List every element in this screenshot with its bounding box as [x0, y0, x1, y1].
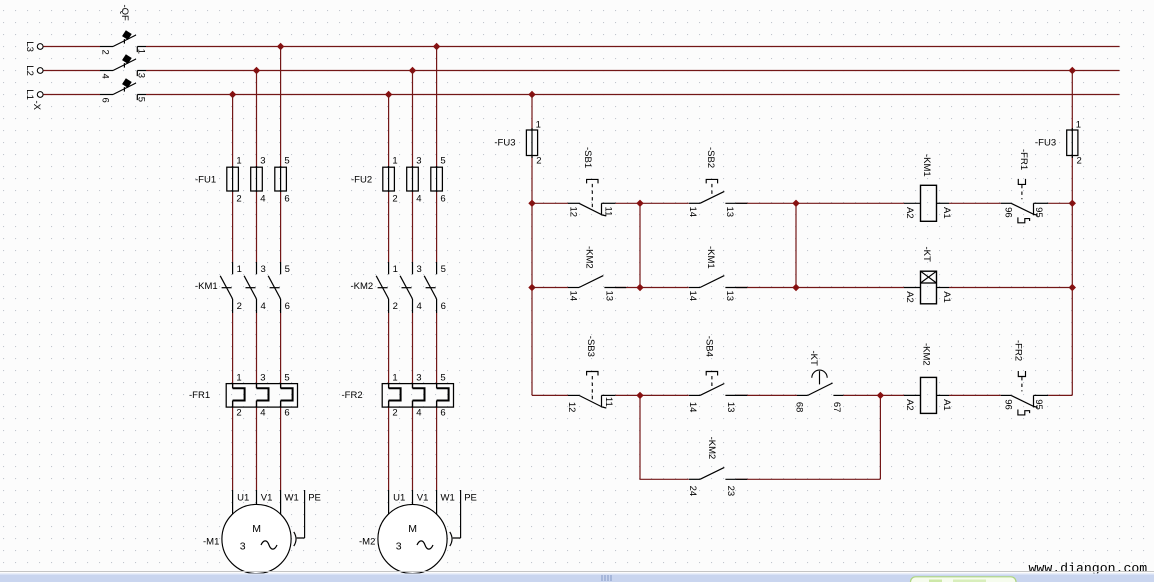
wire L2 bus [43, 70, 1119, 72]
node right-rail/row1 [1069, 200, 1076, 207]
node row3/880 [877, 392, 884, 399]
svg-text:L1: L1 [24, 89, 35, 100]
svg-text:5: 5 [284, 156, 289, 167]
svg-text:5: 5 [441, 264, 446, 275]
svg-text:14: 14 [687, 291, 698, 302]
pushbutton SB2 (NO start) [689, 202, 700, 204]
svg-text:2: 2 [392, 408, 397, 419]
svg-text:-SB3: -SB3 [585, 336, 596, 357]
svg-text:96: 96 [1003, 207, 1014, 218]
fuse FU3 (right, control) [1071, 128, 1073, 158]
svg-text:12: 12 [568, 207, 579, 218]
svg-text:3: 3 [261, 264, 266, 275]
separator line [0, 571, 1154, 573]
svg-text:13: 13 [724, 207, 735, 218]
svg-text:3: 3 [396, 540, 402, 552]
scrollbar track [0, 573, 1154, 582]
svg-text:W1: W1 [441, 492, 455, 503]
svg-text:14: 14 [687, 207, 698, 218]
svg-text:-KM2: -KM2 [706, 437, 717, 460]
svg-text:A1: A1 [941, 291, 952, 303]
svg-text:1: 1 [236, 372, 241, 383]
svg-text:2: 2 [99, 50, 110, 55]
motor M2 [388, 490, 390, 519]
svg-text:PE: PE [464, 492, 477, 503]
node row2/640 [636, 284, 643, 291]
fuse FU1 [232, 166, 234, 192]
timer contact KT (on-delay NO) [797, 394, 808, 396]
wire row2 segments [532, 287, 1072, 289]
svg-text:-FU2: -FU2 [351, 175, 372, 186]
svg-text:-FR1: -FR1 [189, 390, 210, 401]
svg-text:6: 6 [285, 301, 290, 312]
svg-text:4: 4 [416, 408, 421, 419]
svg-text:A1: A1 [941, 207, 952, 219]
wire motor branch 1 columns [233, 47, 281, 491]
svg-text:V1: V1 [261, 492, 273, 503]
svg-text:-M1: -M1 [203, 537, 219, 548]
pushbutton SB3 (NC) [568, 394, 579, 396]
svg-text:4: 4 [99, 74, 110, 79]
svg-text:-KM2: -KM2 [351, 281, 374, 292]
svg-text:67: 67 [831, 402, 842, 413]
svg-text:4: 4 [417, 301, 422, 312]
svg-text:3: 3 [136, 73, 147, 78]
tooltip balloon (clipped) [911, 577, 1017, 582]
svg-text:U1: U1 [237, 492, 249, 503]
svg-text:6: 6 [441, 301, 446, 312]
node row1/640 [636, 200, 643, 207]
svg-text:2: 2 [236, 194, 241, 205]
svg-text:5: 5 [285, 264, 290, 275]
svg-text:6: 6 [440, 408, 445, 419]
coil KM1 [904, 202, 921, 204]
svg-text:-FU3: -FU3 [1035, 137, 1056, 148]
svg-text:1: 1 [393, 264, 398, 275]
motor M1 [232, 490, 234, 519]
svg-text:-FR2: -FR2 [342, 390, 363, 401]
terminal L1 [37, 92, 43, 98]
svg-text:-KM1: -KM1 [195, 281, 218, 292]
svg-text:2: 2 [536, 156, 541, 167]
node L3/branch2 [433, 43, 440, 50]
coil KM2 [904, 394, 921, 396]
svg-text:1: 1 [392, 372, 397, 383]
node L1/left-rail [528, 91, 535, 98]
svg-text:-SB2: -SB2 [705, 147, 716, 168]
svg-text:6: 6 [284, 408, 289, 419]
svg-text:-KM2: -KM2 [584, 246, 595, 269]
wire motor branch 2 columns [389, 47, 437, 491]
node L2/branch2 [409, 67, 416, 74]
svg-text:A2: A2 [904, 291, 915, 303]
svg-text:95: 95 [1033, 207, 1044, 218]
node L1/branch1 [229, 91, 236, 98]
svg-text:2: 2 [237, 301, 242, 312]
node row3/640 [636, 392, 643, 399]
svg-text:-M2: -M2 [359, 537, 375, 548]
svg-text:-KT: -KT [921, 247, 932, 263]
svg-text:13: 13 [603, 291, 614, 302]
svg-text:-KM2: -KM2 [921, 343, 932, 366]
thermal NC contact FR2 [1001, 394, 1011, 396]
svg-text:6: 6 [440, 194, 445, 205]
svg-text:-FR2: -FR2 [1013, 340, 1024, 361]
wire right control rail [1071, 71, 1073, 396]
svg-text:-QF: -QF [119, 5, 130, 22]
svg-text:12: 12 [566, 402, 577, 413]
svg-text:96: 96 [1003, 399, 1014, 410]
svg-text:68: 68 [794, 402, 805, 413]
node L2/branch1 [253, 67, 260, 74]
svg-text:2: 2 [236, 408, 241, 419]
thermal NC contact FR1 [1001, 202, 1011, 204]
svg-text:23: 23 [725, 486, 736, 497]
wire L1 bus [43, 94, 1119, 96]
wire left control rail [531, 95, 533, 396]
svg-text:PE: PE [308, 492, 321, 503]
svg-text:1: 1 [536, 120, 541, 131]
svg-text:4: 4 [260, 194, 265, 205]
svg-text:5: 5 [440, 156, 445, 167]
svg-text:V1: V1 [417, 492, 429, 503]
svg-text:L2: L2 [24, 65, 35, 76]
svg-text:1: 1 [136, 49, 147, 54]
svg-text:M: M [408, 523, 417, 535]
pushbutton SB4 (NO) [689, 394, 700, 396]
wire L3 bus [43, 46, 1119, 48]
svg-text:95: 95 [1033, 399, 1044, 410]
svg-text:5: 5 [440, 372, 445, 383]
svg-text:3: 3 [260, 372, 265, 383]
node row1/796 [792, 200, 799, 207]
svg-text:M: M [252, 523, 261, 535]
svg-text:-FU1: -FU1 [195, 175, 216, 186]
svg-text:W1: W1 [285, 492, 299, 503]
svg-text:24: 24 [687, 486, 698, 497]
svg-text:3: 3 [417, 264, 422, 275]
contactor KM1 main contacts [232, 262, 234, 274]
thermal relay FR2 heaters [382, 384, 453, 408]
svg-text:14: 14 [568, 291, 579, 302]
svg-text:5: 5 [136, 97, 147, 102]
fuse FU2 [388, 166, 390, 192]
svg-text:U1: U1 [393, 492, 405, 503]
svg-text:4: 4 [260, 408, 265, 419]
node L1/branch2 [385, 91, 392, 98]
coil KT (time relay) [904, 287, 921, 289]
svg-text:1: 1 [236, 156, 241, 167]
svg-text:11: 11 [603, 397, 614, 407]
aux contact KM2 (row2 NO) [568, 287, 579, 289]
svg-text:6: 6 [99, 98, 110, 103]
scrollbar grip [602, 575, 611, 581]
svg-text:3: 3 [416, 156, 421, 167]
svg-text:2: 2 [392, 194, 397, 205]
aux contact KM2 (row4 NO) [689, 478, 700, 480]
svg-text:3: 3 [240, 540, 246, 552]
pushbutton SB1 (NC stop) [568, 202, 579, 204]
svg-text:11: 11 [603, 207, 614, 217]
svg-text:14: 14 [687, 402, 698, 413]
svg-text:A2: A2 [904, 207, 915, 219]
svg-text:4: 4 [261, 301, 266, 312]
wire row1 segments [532, 202, 1072, 204]
svg-text:-FU3: -FU3 [494, 137, 515, 148]
svg-text:L3: L3 [24, 41, 35, 52]
wire row3 segments [532, 394, 1072, 396]
wire link row1-row2 at 640 [639, 203, 641, 287]
svg-text:2: 2 [393, 301, 398, 312]
thermal relay FR1 heaters [226, 384, 297, 408]
svg-text:-KM1: -KM1 [921, 154, 932, 177]
node left-rail/row2 [528, 284, 535, 291]
svg-text:6: 6 [284, 194, 289, 205]
svg-text:-SB1: -SB1 [582, 147, 593, 168]
svg-text:2: 2 [1077, 156, 1082, 167]
node left-rail/row1 [528, 200, 535, 207]
svg-text:1: 1 [1076, 120, 1081, 131]
svg-text:-KM1: -KM1 [705, 246, 716, 269]
node right-rail/row2 [1069, 284, 1076, 291]
wire row4 segments [640, 395, 880, 479]
node row2/796 [792, 284, 799, 291]
svg-text:-SB4: -SB4 [704, 336, 715, 357]
svg-text:3: 3 [260, 156, 265, 167]
svg-text:-KT: -KT [808, 351, 819, 367]
contactor KM2 main contacts [388, 262, 390, 274]
svg-text:A1: A1 [941, 399, 952, 411]
svg-text:-X: -X [31, 101, 42, 111]
wire link row1-row2 at 796 [795, 203, 797, 287]
aux contact KM1 (row2 NO self-hold) [689, 287, 700, 289]
svg-text:4: 4 [416, 194, 421, 205]
svg-text:13: 13 [724, 291, 735, 302]
node L3/branch1 [277, 43, 284, 50]
svg-text:3: 3 [416, 372, 421, 383]
svg-text:-FR1: -FR1 [1018, 149, 1029, 170]
terminal L2 [37, 68, 43, 74]
fuse FU3 (left, control) [531, 128, 533, 158]
svg-text:A2: A2 [904, 399, 915, 411]
svg-text:1: 1 [237, 264, 242, 275]
svg-text:5: 5 [284, 372, 289, 383]
svg-text:1: 1 [392, 156, 397, 167]
svg-text:13: 13 [725, 402, 736, 413]
terminal L3 [37, 44, 43, 50]
circuit breaker QF (3 poles) [100, 46, 113, 48]
node L2/right-rail [1069, 67, 1076, 74]
